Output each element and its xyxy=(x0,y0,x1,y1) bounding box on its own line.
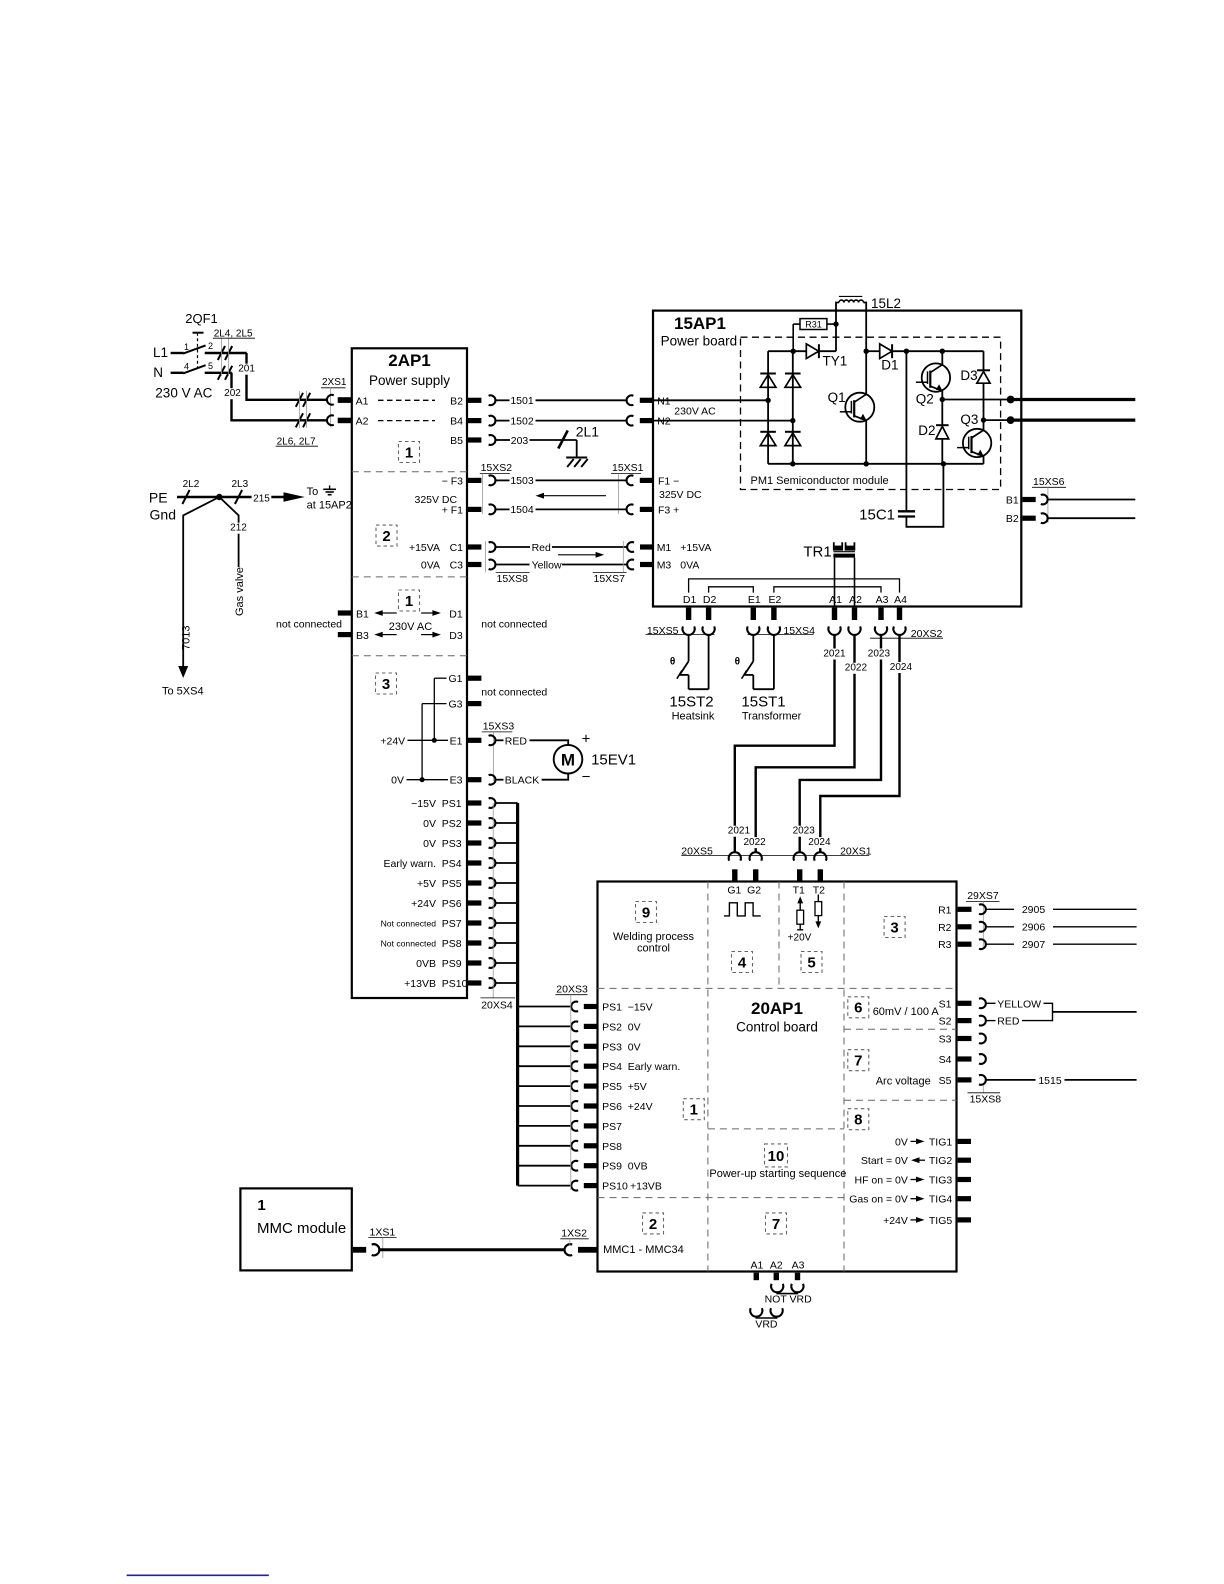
svg-text:PS2: PS2 xyxy=(442,818,462,830)
svg-text:MMC module: MMC module xyxy=(257,1220,346,1237)
svg-text:15XS8: 15XS8 xyxy=(497,573,529,585)
svg-text:−: − xyxy=(582,769,591,786)
svg-text:2L4, 2L5: 2L4, 2L5 xyxy=(214,328,253,339)
svg-text:not connected: not connected xyxy=(481,618,547,630)
svg-text:2024: 2024 xyxy=(890,662,913,673)
svg-text:15XS5: 15XS5 xyxy=(647,625,679,637)
svg-text:2023: 2023 xyxy=(868,648,891,659)
svg-text:A1: A1 xyxy=(750,1260,763,1272)
svg-text:B4: B4 xyxy=(450,416,463,428)
svg-text:202: 202 xyxy=(224,388,241,399)
svg-text:15XS7: 15XS7 xyxy=(594,573,626,585)
svg-text:M: M xyxy=(561,750,575,769)
svg-text:B1: B1 xyxy=(356,608,369,620)
svg-text:PS7: PS7 xyxy=(442,918,462,930)
svg-text:PS6: PS6 xyxy=(602,1101,622,1113)
svg-text:Early warn.: Early warn. xyxy=(383,858,436,870)
svg-text:+24V: +24V xyxy=(380,735,405,747)
svg-text:E1: E1 xyxy=(450,735,463,747)
svg-text:5: 5 xyxy=(807,954,815,971)
svg-text:G1: G1 xyxy=(448,673,462,685)
svg-text:29XS7: 29XS7 xyxy=(967,890,999,902)
svg-text:E3: E3 xyxy=(450,775,463,787)
svg-text:PE: PE xyxy=(149,490,168,506)
svg-text:+5V: +5V xyxy=(628,1081,647,1093)
svg-text:Welding process: Welding process xyxy=(613,931,695,943)
svg-text:Early warn.: Early warn. xyxy=(628,1061,681,1073)
svg-text:1501: 1501 xyxy=(510,395,534,407)
svg-text:F1 −: F1 − xyxy=(658,475,679,487)
svg-text:TR1: TR1 xyxy=(803,544,831,561)
svg-text:Start = 0V: Start = 0V xyxy=(861,1155,908,1167)
svg-text:2L1: 2L1 xyxy=(576,424,600,440)
svg-text:TIG1: TIG1 xyxy=(929,1136,952,1148)
svg-text:not connected: not connected xyxy=(481,686,547,698)
svg-text:B2: B2 xyxy=(450,395,463,407)
svg-text:TIG3: TIG3 xyxy=(929,1175,952,1187)
svg-text:− F3: − F3 xyxy=(442,475,463,487)
svg-text:15ST1: 15ST1 xyxy=(741,694,785,711)
svg-text:1XS1: 1XS1 xyxy=(370,1226,396,1238)
svg-text:3: 3 xyxy=(382,676,390,693)
svg-text:control: control xyxy=(637,943,670,955)
svg-text:2906: 2906 xyxy=(1022,922,1046,934)
svg-text:L1: L1 xyxy=(153,345,168,360)
svg-text:Not connected: Not connected xyxy=(381,938,437,948)
svg-text:D2: D2 xyxy=(703,594,717,606)
svg-text:2022: 2022 xyxy=(743,837,766,848)
svg-text:0VB: 0VB xyxy=(416,958,436,970)
svg-text:G3: G3 xyxy=(448,699,462,711)
svg-text:15XS6: 15XS6 xyxy=(1033,476,1065,488)
svg-text:0V: 0V xyxy=(628,1041,641,1053)
svg-text:at 15AP2: at 15AP2 xyxy=(307,500,352,512)
svg-text:−15V: −15V xyxy=(411,798,436,810)
svg-text:PS10: PS10 xyxy=(442,978,468,990)
svg-text:7: 7 xyxy=(854,1053,862,1070)
svg-text:1503: 1503 xyxy=(510,475,534,487)
svg-text:15C1: 15C1 xyxy=(859,506,895,523)
svg-text:230V AC: 230V AC xyxy=(389,621,432,633)
svg-text:2021: 2021 xyxy=(823,648,846,659)
svg-text:PS2: PS2 xyxy=(602,1021,622,1033)
svg-text:S5: S5 xyxy=(939,1075,952,1087)
svg-text:PS8: PS8 xyxy=(442,938,462,950)
svg-text:A1: A1 xyxy=(829,594,842,606)
svg-text:+24V: +24V xyxy=(411,898,436,910)
svg-text:θ: θ xyxy=(670,657,675,668)
svg-text:PS1: PS1 xyxy=(602,1002,622,1014)
svg-text:N: N xyxy=(153,365,163,380)
svg-text:M3: M3 xyxy=(657,560,672,572)
svg-text:2: 2 xyxy=(208,341,213,351)
svg-text:S3: S3 xyxy=(939,1034,952,1046)
svg-text:2L2: 2L2 xyxy=(183,479,200,490)
svg-text:+24V: +24V xyxy=(628,1101,653,1113)
svg-text:2L3: 2L3 xyxy=(232,479,249,490)
svg-text:Yellow: Yellow xyxy=(532,560,562,572)
svg-text:T1: T1 xyxy=(793,884,805,896)
svg-text:A2: A2 xyxy=(356,416,369,428)
svg-text:2022: 2022 xyxy=(845,663,868,674)
svg-text:Gas valve: Gas valve xyxy=(234,567,246,616)
svg-text:PS3: PS3 xyxy=(602,1041,622,1053)
svg-text:230V AC: 230V AC xyxy=(674,405,716,417)
svg-text:+: + xyxy=(582,731,591,748)
svg-text:2QF1: 2QF1 xyxy=(185,311,218,326)
svg-text:Gas on = 0V: Gas on = 0V xyxy=(849,1194,908,1206)
svg-text:Power board: Power board xyxy=(661,334,738,349)
svg-text:TIG5: TIG5 xyxy=(929,1215,952,1227)
svg-text:θ: θ xyxy=(735,657,740,668)
svg-text:0V: 0V xyxy=(423,838,436,850)
svg-text:S2: S2 xyxy=(939,1016,952,1028)
svg-text:20AP1: 20AP1 xyxy=(751,999,803,1018)
svg-text:B1: B1 xyxy=(1006,495,1019,507)
svg-text:7: 7 xyxy=(772,1216,780,1233)
svg-text:R2: R2 xyxy=(938,922,952,934)
svg-text:B5: B5 xyxy=(450,435,463,447)
svg-text:Power-up starting sequence: Power-up starting sequence xyxy=(709,1168,846,1180)
svg-text:PS4: PS4 xyxy=(442,858,462,870)
svg-text:TIG2: TIG2 xyxy=(929,1155,952,1167)
svg-text:0V: 0V xyxy=(391,775,404,787)
svg-text:D1: D1 xyxy=(683,594,697,606)
svg-text:PS7: PS7 xyxy=(602,1121,622,1133)
svg-text:BLACK: BLACK xyxy=(505,775,539,787)
svg-text:3: 3 xyxy=(890,919,898,936)
svg-text:R3: R3 xyxy=(938,939,952,951)
svg-text:1XS2: 1XS2 xyxy=(561,1227,587,1239)
svg-text:2023: 2023 xyxy=(793,826,816,837)
svg-text:2905: 2905 xyxy=(1022,904,1046,916)
svg-text:+24V: +24V xyxy=(883,1215,908,1227)
svg-text:15EV1: 15EV1 xyxy=(591,752,636,769)
svg-text:Q3: Q3 xyxy=(960,412,978,427)
svg-text:Not connected: Not connected xyxy=(381,918,437,928)
svg-text:+ F1: + F1 xyxy=(442,504,463,516)
svg-text:6: 6 xyxy=(854,1000,862,1017)
svg-text:PS5: PS5 xyxy=(442,878,462,890)
svg-text:5: 5 xyxy=(208,361,213,371)
svg-text:15XS4: 15XS4 xyxy=(783,625,815,637)
svg-text:N1: N1 xyxy=(657,395,671,407)
svg-text:60mV / 100 A: 60mV / 100 A xyxy=(873,1006,940,1018)
svg-text:F3 +: F3 + xyxy=(658,504,679,516)
svg-text:2907: 2907 xyxy=(1022,939,1046,951)
svg-text:−15V: −15V xyxy=(628,1002,653,1014)
svg-text:0V: 0V xyxy=(423,818,436,830)
svg-text:not connected: not connected xyxy=(276,618,342,630)
svg-text:2: 2 xyxy=(649,1216,657,1233)
svg-text:8: 8 xyxy=(854,1112,862,1129)
svg-text:A2: A2 xyxy=(849,594,862,606)
svg-text:PS10: PS10 xyxy=(602,1181,628,1193)
svg-text:1: 1 xyxy=(405,593,413,610)
svg-text:+15VA: +15VA xyxy=(409,542,440,554)
svg-text:A1: A1 xyxy=(356,395,369,407)
svg-text:YELLOW: YELLOW xyxy=(997,998,1041,1010)
svg-text:0V: 0V xyxy=(628,1021,641,1033)
svg-text:R1: R1 xyxy=(938,904,952,916)
svg-text:A3: A3 xyxy=(876,594,889,606)
svg-text:7013: 7013 xyxy=(181,626,193,650)
svg-text:PS3: PS3 xyxy=(442,838,462,850)
svg-text:10: 10 xyxy=(768,1148,785,1165)
svg-text:15ST2: 15ST2 xyxy=(669,694,713,711)
svg-text:D1: D1 xyxy=(449,608,463,620)
svg-text:RED: RED xyxy=(997,1016,1020,1028)
svg-text:15XS3: 15XS3 xyxy=(483,721,515,733)
svg-text:15AP1: 15AP1 xyxy=(674,314,726,333)
svg-text:C3: C3 xyxy=(450,560,464,572)
svg-text:201: 201 xyxy=(238,364,255,375)
svg-text:15L2: 15L2 xyxy=(871,296,901,311)
svg-text:1: 1 xyxy=(184,342,189,352)
svg-text:PS8: PS8 xyxy=(602,1141,622,1153)
svg-text:0VA: 0VA xyxy=(680,560,699,572)
svg-text:HF on = 0V: HF on = 0V xyxy=(854,1175,907,1187)
svg-text:S1: S1 xyxy=(939,998,952,1010)
svg-text:9: 9 xyxy=(642,904,650,921)
svg-text:Red: Red xyxy=(532,542,551,554)
svg-text:N2: N2 xyxy=(657,416,671,428)
svg-text:Arc voltage: Arc voltage xyxy=(876,1076,931,1088)
svg-text:215: 215 xyxy=(253,494,270,505)
svg-text:2AP1: 2AP1 xyxy=(388,351,431,370)
svg-text:Heatsink: Heatsink xyxy=(672,711,715,723)
svg-text:2XS1: 2XS1 xyxy=(322,377,347,388)
svg-text:203: 203 xyxy=(511,435,529,447)
svg-text:1502: 1502 xyxy=(510,415,534,427)
svg-text:NOT VRD: NOT VRD xyxy=(765,1294,812,1306)
svg-text:2021: 2021 xyxy=(728,826,751,837)
svg-text:20XS4: 20XS4 xyxy=(481,999,513,1011)
svg-text:A2: A2 xyxy=(770,1260,783,1272)
svg-text:2L6, 2L7: 2L6, 2L7 xyxy=(277,436,316,447)
svg-text:C1: C1 xyxy=(450,542,464,554)
svg-text:D2: D2 xyxy=(918,423,935,438)
svg-text:To 5XS4: To 5XS4 xyxy=(162,686,204,698)
svg-text:S4: S4 xyxy=(939,1054,952,1066)
svg-text:TIG4: TIG4 xyxy=(929,1194,952,1206)
svg-text:VRD: VRD xyxy=(755,1319,778,1331)
svg-text:+15VA: +15VA xyxy=(680,542,711,554)
svg-text:PS9: PS9 xyxy=(602,1161,622,1173)
svg-text:E2: E2 xyxy=(768,594,781,606)
svg-text:Power supply: Power supply xyxy=(369,373,450,388)
svg-text:PS6: PS6 xyxy=(442,898,462,910)
svg-text:Gnd: Gnd xyxy=(150,507,176,523)
svg-text:20XS2: 20XS2 xyxy=(911,628,943,640)
svg-text:MMC1 - MMC34: MMC1 - MMC34 xyxy=(603,1244,684,1256)
svg-text:Q2: Q2 xyxy=(916,392,934,407)
svg-text:Transformer: Transformer xyxy=(742,711,802,723)
svg-text:4: 4 xyxy=(738,954,747,971)
svg-text:230 V AC: 230 V AC xyxy=(155,386,212,401)
svg-text:4: 4 xyxy=(184,362,189,372)
svg-text:Control board: Control board xyxy=(736,1020,818,1035)
svg-text:0VB: 0VB xyxy=(628,1161,648,1173)
svg-text:20XS3: 20XS3 xyxy=(556,983,588,995)
svg-text:1504: 1504 xyxy=(510,504,534,516)
svg-text:PS1: PS1 xyxy=(442,798,462,810)
svg-text:B2: B2 xyxy=(1006,513,1019,525)
svg-text:D3: D3 xyxy=(449,630,463,642)
svg-text:R31: R31 xyxy=(805,320,822,330)
svg-text:0V: 0V xyxy=(895,1136,908,1148)
svg-text:+20V: +20V xyxy=(788,933,812,944)
svg-text:TY1: TY1 xyxy=(823,354,848,369)
svg-text:1: 1 xyxy=(690,1102,698,1119)
svg-text:To: To xyxy=(307,486,319,498)
svg-text:+13VB: +13VB xyxy=(630,1181,662,1193)
svg-text:+5V: +5V xyxy=(417,878,436,890)
svg-text:Q1: Q1 xyxy=(828,390,846,405)
svg-text:A3: A3 xyxy=(792,1260,805,1272)
svg-text:RED: RED xyxy=(505,735,528,747)
svg-text:1: 1 xyxy=(405,444,413,461)
svg-text:PS9: PS9 xyxy=(442,958,462,970)
svg-text:15XS1: 15XS1 xyxy=(612,462,644,474)
svg-text:20XS1: 20XS1 xyxy=(840,845,872,857)
svg-text:0VA: 0VA xyxy=(421,560,440,572)
svg-text:D3: D3 xyxy=(960,368,977,383)
svg-text:E1: E1 xyxy=(748,594,761,606)
svg-text:PM1 Semiconductor module: PM1 Semiconductor module xyxy=(751,475,889,487)
svg-text:PS4: PS4 xyxy=(602,1061,622,1073)
svg-text:15XS2: 15XS2 xyxy=(481,462,513,474)
svg-text:D1: D1 xyxy=(881,358,898,373)
svg-text:G1: G1 xyxy=(727,884,741,896)
svg-text:2: 2 xyxy=(382,528,390,545)
svg-text:PS5: PS5 xyxy=(602,1081,622,1093)
svg-text:325V DC: 325V DC xyxy=(659,489,702,501)
svg-text:1: 1 xyxy=(257,1197,265,1214)
svg-text:1515: 1515 xyxy=(1038,1075,1062,1087)
svg-text:B3: B3 xyxy=(356,630,369,642)
svg-text:212: 212 xyxy=(230,523,247,534)
svg-text:20XS5: 20XS5 xyxy=(681,845,713,857)
svg-text:2024: 2024 xyxy=(808,837,831,848)
svg-text:+13VB: +13VB xyxy=(404,978,436,990)
svg-text:M1: M1 xyxy=(657,542,672,554)
svg-text:A4: A4 xyxy=(894,594,907,606)
svg-text:G2: G2 xyxy=(747,884,761,896)
svg-text:15XS8: 15XS8 xyxy=(970,1094,1002,1106)
